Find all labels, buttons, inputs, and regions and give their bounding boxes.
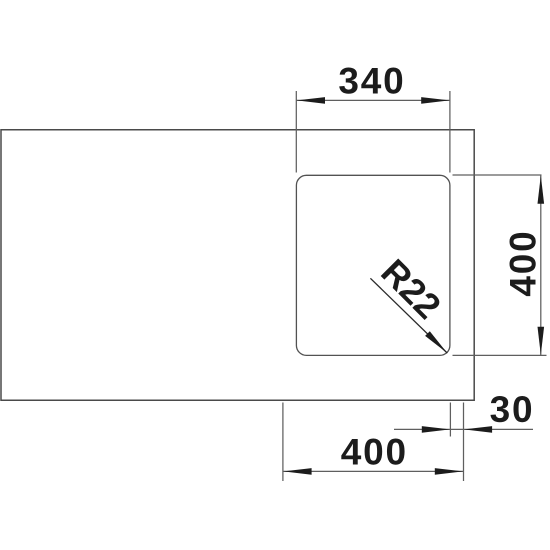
dim 400 right: up arrowhead [538, 176, 545, 204]
svg-text:400: 400 [502, 230, 543, 297]
dim 400 right: top extension line [453, 174, 542, 176]
bowl cutout R22 rounded square [296, 175, 450, 355]
R22 leader line [370, 278, 447, 353]
dim 340: right extension line [449, 91, 451, 173]
dim 340: right arrowhead [421, 97, 449, 104]
dim 400 right: dimension line [540, 175, 542, 355]
dim 400 bottom: left arrowhead [283, 468, 311, 475]
dim 400 bottom: right arrowhead [435, 468, 463, 475]
R22 leader arrowhead [425, 331, 447, 353]
svg-text:400: 400 [341, 432, 408, 473]
svg-text:340: 340 [338, 60, 405, 101]
countertop outline [1, 130, 474, 400]
dim 400 bottom: dimension line [283, 470, 464, 472]
dim 30: left extension line [449, 403, 451, 437]
dim 400 right: down arrowhead [538, 327, 545, 355]
dim 30: left arrowhead (points right) [422, 426, 450, 433]
dim 400 right: bottom extension line [453, 354, 547, 356]
svg-text:R22: R22 [373, 251, 449, 327]
dim 400 bottom: left extension line [282, 403, 284, 482]
dim 340: left arrowhead [297, 97, 325, 104]
dim 30: right extension line [463, 403, 465, 482]
dim 340: dimension line [296, 99, 450, 101]
dim 30: right arrowhead (points left) [464, 426, 492, 433]
dim 340: left extension line [295, 91, 297, 173]
dim 30: dimension line with outside tails [394, 428, 533, 430]
svg-text:30: 30 [490, 389, 535, 430]
